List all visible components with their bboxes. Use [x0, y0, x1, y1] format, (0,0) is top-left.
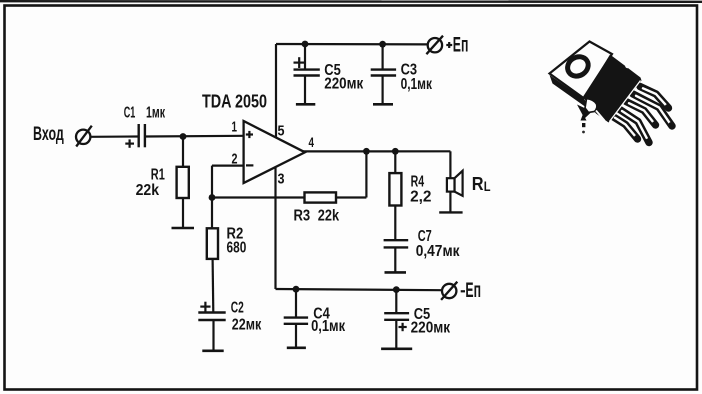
- svg-text:22k: 22k: [318, 208, 339, 225]
- svg-text:3: 3: [278, 171, 285, 188]
- svg-text:R: R: [472, 174, 484, 194]
- svg-text:4: 4: [309, 135, 315, 150]
- svg-text:220мк: 220мк: [324, 76, 364, 93]
- svg-text:22k: 22k: [136, 182, 160, 199]
- svg-text:Вход: Вход: [33, 124, 64, 145]
- svg-text:0,47мк: 0,47мк: [416, 243, 461, 260]
- svg-text:L: L: [484, 179, 491, 194]
- svg-text:5: 5: [278, 123, 285, 140]
- svg-text:C1: C1: [124, 105, 136, 122]
- svg-text:R3: R3: [294, 208, 311, 225]
- svg-text:680: 680: [227, 240, 247, 257]
- svg-text:0,1мк: 0,1мк: [311, 318, 346, 335]
- svg-text:Еп: Еп: [453, 33, 469, 56]
- svg-text:2,2: 2,2: [410, 189, 431, 206]
- svg-text:2: 2: [232, 150, 238, 167]
- svg-text:1: 1: [232, 119, 238, 136]
- svg-text:22мк: 22мк: [232, 317, 262, 334]
- svg-text:0,1мк: 0,1мк: [401, 76, 433, 93]
- svg-text:R1: R1: [151, 166, 165, 183]
- svg-text:Еп: Еп: [465, 279, 481, 302]
- svg-text:1мк: 1мк: [146, 105, 166, 122]
- svg-text:TDA 2050: TDA 2050: [202, 91, 267, 112]
- svg-text:C2: C2: [231, 299, 244, 316]
- svg-text:220мк: 220мк: [411, 320, 451, 337]
